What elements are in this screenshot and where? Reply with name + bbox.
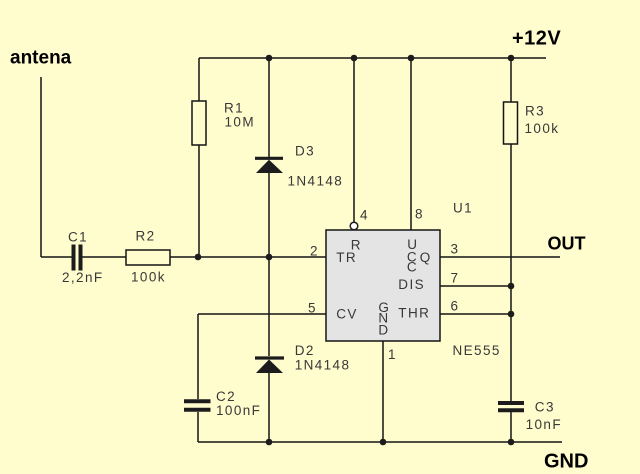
wire R3 top	[510, 58, 512, 102]
wire pin 7	[440, 285, 511, 287]
capacitor C3	[498, 400, 562, 432]
wire pin 4	[353, 58, 355, 222]
resistor R1	[192, 101, 255, 145]
wire pin 5 vertical to C2	[197, 314, 199, 399]
resistor R2	[126, 229, 170, 285]
node rail-R3	[508, 55, 515, 62]
svg-text:R1: R1	[224, 101, 244, 116]
capacitor C1	[62, 229, 104, 285]
svg-text:2: 2	[310, 243, 319, 258]
op-amp U1 NE555 IC body	[326, 230, 440, 341]
wire D3 bottom to node	[268, 173, 270, 257]
svg-text:NE555: NE555	[453, 343, 501, 358]
svg-text:R2: R2	[136, 229, 156, 244]
node rail-pin8	[408, 55, 415, 62]
svg-text:Q: Q	[420, 250, 432, 265]
wire top +12V rail	[199, 57, 546, 59]
wire R3 bottom to C3	[510, 144, 512, 401]
wire D2 to ground rail	[268, 373, 270, 442]
svg-text:1N4148: 1N4148	[288, 173, 344, 188]
svg-text:R3: R3	[525, 104, 545, 119]
svg-text:100k: 100k	[131, 270, 166, 285]
node pin6-R3	[508, 311, 515, 318]
svg-text:GND: GND	[544, 450, 588, 472]
svg-text:2,2nF: 2,2nF	[62, 270, 104, 285]
svg-text:5: 5	[308, 300, 317, 315]
svg-text:CV: CV	[336, 307, 358, 322]
wire ground rail	[198, 441, 562, 443]
svg-text:10M: 10M	[225, 115, 255, 130]
wire node to D2	[268, 257, 270, 356]
wire R1 top	[198, 58, 200, 101]
svg-text:THR: THR	[398, 306, 430, 321]
svg-text:C2: C2	[216, 389, 236, 404]
diode D2	[255, 343, 350, 373]
node pin7-R3	[508, 283, 515, 290]
svg-text:1: 1	[388, 347, 397, 362]
svg-text:DIS: DIS	[398, 277, 425, 292]
wire antenna vertical	[40, 77, 42, 257]
svg-text:U1: U1	[453, 201, 473, 216]
node R1-TR	[195, 254, 202, 261]
svg-text:6: 6	[451, 298, 460, 313]
wire pin 8	[410, 58, 412, 230]
svg-text:C: C	[407, 259, 418, 274]
svg-text:1N4148: 1N4148	[295, 357, 351, 372]
pin 4 inversion circle	[350, 222, 358, 230]
svg-text:OUT: OUT	[548, 234, 586, 254]
node D2-gnd	[266, 439, 273, 446]
wire C1 to R2	[83, 256, 127, 258]
svg-text:+12V: +12V	[512, 28, 561, 50]
wire pin 5 horizontal	[198, 313, 326, 315]
node rail-D3	[266, 55, 273, 62]
resistor R3	[504, 102, 560, 144]
svg-text:antena: antena	[10, 48, 72, 69]
wire pin 1 to ground rail	[382, 341, 384, 442]
wire pin 6	[440, 313, 511, 315]
svg-text:7: 7	[451, 270, 460, 285]
wire R1 bottom	[198, 145, 200, 257]
diode D3	[255, 144, 343, 189]
svg-text:8: 8	[415, 206, 424, 221]
svg-text:10nF: 10nF	[526, 417, 562, 432]
wire pin 3 OUT	[440, 256, 560, 258]
node junction dots	[195, 55, 515, 446]
svg-text:C3: C3	[535, 400, 555, 415]
wire R2 to pin 2	[170, 256, 326, 258]
svg-text:100k: 100k	[525, 121, 560, 136]
node D3-TR	[266, 254, 273, 261]
wire C2 to ground rail	[197, 412, 199, 442]
svg-text:D3: D3	[295, 144, 315, 159]
node rail-pin4	[351, 55, 358, 62]
capacitor C2	[184, 389, 261, 418]
svg-text:TR: TR	[336, 250, 357, 265]
node C3-gnd	[508, 439, 515, 446]
svg-text:100nF: 100nF	[216, 403, 261, 418]
wire C3 to ground rail	[510, 412, 512, 442]
wire D3 top	[268, 58, 270, 157]
svg-text:C1: C1	[68, 229, 88, 244]
wire antenna to C1	[41, 256, 72, 258]
node pin1-gnd	[380, 439, 387, 446]
svg-text:D2: D2	[295, 343, 315, 358]
svg-text:D: D	[378, 323, 389, 338]
svg-text:4: 4	[360, 207, 369, 222]
svg-text:3: 3	[451, 241, 460, 256]
